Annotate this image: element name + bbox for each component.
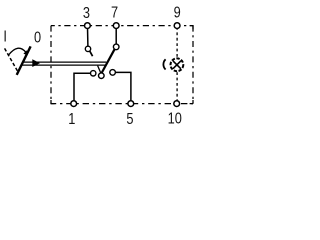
- indicator lamp dashed circle: [171, 58, 184, 71]
- enclosure dashed border bottom: [51, 103, 193, 105]
- mechanical linkage double line bottom: [21, 64, 105, 66]
- border corner tick top-right: [190, 26, 193, 30]
- border corner tick bottom-left: [51, 100, 55, 104]
- lever travel arrowhead: [23, 50, 27, 55]
- terminal 5: [128, 101, 134, 107]
- svg-text:10: 10: [168, 110, 182, 128]
- wire from left bridge contact to terminal 1: [74, 73, 91, 102]
- terminal 3: [85, 23, 91, 29]
- wire from terminal 3 down to fixed contact: [87, 27, 89, 46]
- terminal 1: [71, 101, 77, 107]
- open blade stub at contact 3: [90, 51, 93, 56]
- enclosure dashed border left: [50, 26, 52, 104]
- enclosure dashed border top: [51, 25, 193, 27]
- enclosure dashed border right: [192, 26, 194, 104]
- border corner tick bottom-right: [190, 100, 193, 104]
- svg-text:1: 1: [68, 111, 75, 129]
- pivot contact circle: [99, 73, 105, 79]
- closed switch blade from contact 7 to pivot: [101, 49, 114, 73]
- right bridge contact circle: [110, 70, 116, 76]
- fixed contact circle of terminal 7: [113, 44, 119, 50]
- mechanical linkage double line top: [23, 61, 107, 63]
- svg-text:5: 5: [126, 111, 133, 129]
- dashed illumination wire 9 to lamp: [176, 27, 178, 57]
- lever actuator: [17, 46, 31, 75]
- left bridge contact circle: [91, 71, 96, 76]
- dashed illumination wire lamp to 10: [176, 72, 178, 102]
- actuation direction arrowhead: [32, 59, 40, 67]
- terminal 9: [174, 23, 180, 29]
- wire from right bridge contact to terminal 5: [115, 72, 130, 102]
- wire from terminal 7 down to fixed contact: [115, 27, 117, 44]
- lamp cross stroke 2: [173, 61, 181, 69]
- lever alternate position dashed: [5, 48, 18, 71]
- lamp reflector arc: [163, 59, 165, 69]
- lever travel arc arrow: [9, 48, 26, 55]
- svg-text:I: I: [3, 28, 7, 46]
- terminal 10: [174, 101, 180, 107]
- svg-text:7: 7: [111, 4, 118, 22]
- svg-text:3: 3: [83, 5, 90, 23]
- mechanical link connector to pivot: [98, 66, 101, 73]
- fixed contact circle of terminal 3: [85, 46, 90, 51]
- svg-text:9: 9: [174, 4, 181, 22]
- svg-text:0: 0: [34, 29, 41, 47]
- terminal 7: [113, 23, 119, 29]
- lamp cross stroke 1: [173, 61, 181, 69]
